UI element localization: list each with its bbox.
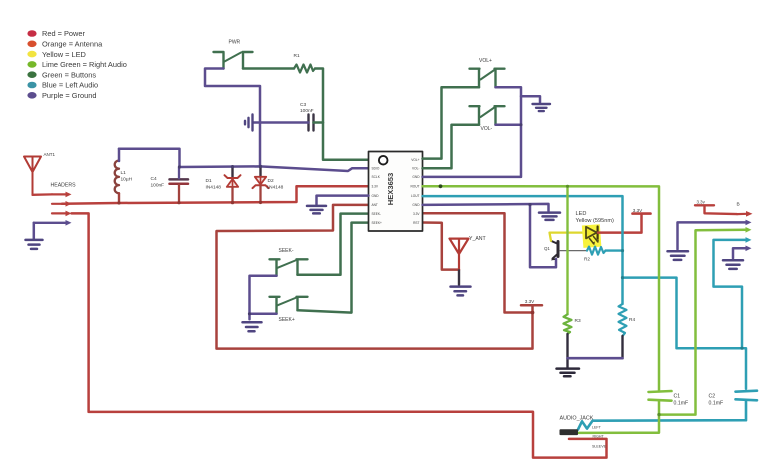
svg-text:R1: R1	[294, 53, 300, 59]
wire R3 bottom stem (dark)	[566, 334, 568, 367]
ground below R3 (dark)	[557, 369, 580, 377]
svg-text:0.1mF: 0.1mF	[674, 401, 689, 407]
IC U1 HEX3653	[369, 152, 423, 232]
antenna Y_ANT	[450, 236, 487, 285]
wire IC right pin4 right-audio to C1 (lime)	[423, 186, 660, 391]
power symbol 3.3v at right header	[695, 200, 737, 215]
svg-text:PWR: PWR	[229, 40, 241, 46]
svg-text:0.1mF: 0.1mF	[709, 401, 724, 407]
svg-text:ANT1: ANT1	[44, 152, 56, 157]
wire R1 to IC pin1 (green)	[315, 69, 369, 160]
wire R2 to left-audio line (teal)	[606, 249, 623, 251]
wire teal branch to C2	[623, 278, 747, 389]
svg-text:VOL+: VOL+	[411, 158, 419, 162]
wire right header pin4 (teal)	[714, 240, 748, 348]
svg-text:3.3V: 3.3V	[372, 184, 379, 188]
wire VOL+ to IC right pin1 (green)	[423, 87, 480, 158]
svg-text:GND: GND	[412, 175, 420, 179]
svg-text:SEEK-: SEEK-	[372, 212, 382, 216]
svg-text:AUDIO_JACK: AUDIO_JACK	[560, 415, 594, 421]
wire power bus headers to IC pin4 (red)	[62, 186, 369, 204]
right header pin3 arrow (lime)	[746, 227, 752, 233]
diode D2 1N4148	[253, 166, 284, 202]
svg-text:C3: C3	[300, 102, 306, 108]
svg-text:R3: R3	[575, 318, 581, 324]
junction node dots	[117, 123, 743, 416]
header pin2 arrow (red)	[52, 201, 72, 207]
svg-text:D1: D1	[206, 178, 212, 184]
svg-text:VOL-: VOL-	[412, 167, 419, 171]
connector AUDIO_JACK	[560, 415, 607, 448]
legend swatch Purple=Ground	[27, 91, 96, 100]
wire IC left pin5 to ground (purple)	[317, 196, 369, 205]
wire SEEK+ to IC pin8 (green)	[298, 223, 369, 313]
ground at right header pin2	[668, 251, 689, 260]
pushbutton SEEK-	[270, 259, 308, 276]
legend swatch Red=Power	[27, 29, 85, 38]
wire C3 right plate to green node	[314, 121, 324, 124]
header pin3 arrow (red)	[52, 211, 72, 217]
svg-text:3.3V: 3.3V	[633, 208, 643, 213]
wire SEEK- to IC pin7 (green)	[298, 214, 369, 275]
connector HEADERS label	[51, 182, 77, 188]
svg-text:C1: C1	[674, 393, 681, 399]
svg-text:C4: C4	[151, 176, 157, 182]
transistor Q1	[544, 241, 558, 261]
wire IC pin7 to 3.3V node (red)	[423, 213, 533, 312]
svg-text:1N4148: 1N4148	[267, 185, 284, 191]
resistor R2	[584, 247, 606, 262]
wire VOL common to IC right pin3 (purple)	[423, 87, 541, 177]
wire C2 to jack LEFT (teal)	[578, 401, 746, 430]
wire right header pin2 to ground (purple)	[678, 222, 749, 249]
svg-text:SDIO: SDIO	[372, 167, 380, 171]
svg-text:VOL+: VOL+	[479, 58, 492, 64]
resistor R4	[619, 304, 636, 336]
svg-text:D2: D2	[268, 178, 274, 184]
svg-text:3.3V: 3.3V	[413, 212, 420, 216]
svg-text:HEX3653: HEX3653	[386, 173, 395, 206]
svg-text:LED: LED	[576, 211, 587, 217]
svg-text:Yellow (595nm): Yellow (595nm)	[576, 218, 614, 224]
svg-text:VOL-: VOL-	[481, 126, 493, 132]
legend swatch Green=Buttons	[27, 70, 96, 79]
resistor R1	[294, 53, 316, 73]
wire header pin3 to bottom rail (red)	[72, 213, 607, 457]
ground at Y_ANT	[451, 287, 471, 296]
svg-text:Blue = Left Audio: Blue = Left Audio	[42, 81, 98, 90]
resistor R3	[564, 314, 581, 334]
svg-text:Yellow = LED: Yellow = LED	[42, 50, 86, 59]
svg-text:100nF: 100nF	[300, 108, 314, 114]
ground at IC right pin6	[539, 213, 560, 220]
svg-text:GND: GND	[412, 203, 420, 207]
wire C3 left plate to side ground (purple)	[254, 121, 309, 124]
svg-text:10µH: 10µH	[121, 177, 133, 183]
wire L1 bottom stub to power bus (red)	[118, 193, 120, 203]
wire C1 bottom junction to jack RIGHT (lime)	[578, 401, 659, 433]
svg-text:SCLK: SCLK	[372, 175, 381, 179]
svg-text:B: B	[737, 202, 740, 208]
IC pin labels right	[410, 158, 420, 225]
wire C1 junction to right header pin3 (lime)	[659, 230, 747, 415]
svg-text:SEEK+: SEEK+	[372, 221, 383, 225]
ground at VOL buttons	[533, 104, 551, 111]
svg-text:Green = Buttons: Green = Buttons	[42, 70, 96, 79]
svg-text:Purple = Ground: Purple = Ground	[42, 91, 96, 100]
wire Q1 base lead (gray)	[560, 250, 588, 252]
svg-text:SLEEVE: SLEEVE	[592, 444, 607, 448]
header pin4 arrow (purple)	[34, 220, 72, 226]
power symbol 3.3V at LED	[633, 208, 651, 214]
svg-text:IN4148: IN4148	[206, 185, 222, 191]
pushbutton PWR	[214, 52, 253, 69]
svg-text:HEADERS: HEADERS	[51, 182, 77, 188]
svg-text:GND: GND	[372, 194, 380, 198]
wire R4 bottom stem (dark)	[621, 336, 623, 358]
svg-text:Y_ANT: Y_ANT	[469, 236, 487, 242]
wire ground bus horizontal to IC pin2 (purple)	[180, 166, 369, 171]
ground at right header pin5	[723, 260, 743, 269]
svg-text:ANT: ANT	[372, 203, 378, 207]
IC pin labels left	[372, 167, 383, 225]
wire VOL- to IC right pin2 (green)	[423, 125, 480, 169]
wire L1 top stub (purple)	[118, 149, 121, 161]
right header label B	[737, 202, 740, 208]
svg-text:ROUT: ROUT	[410, 184, 419, 188]
capacitor C4	[151, 176, 189, 189]
wire IC right pin6 ground net (purple)	[423, 204, 557, 267]
header pin1 arrow (red)	[52, 192, 72, 198]
svg-text:Red = Power: Red = Power	[42, 29, 85, 38]
wire IC right pin8 to Y_ANT (red)	[423, 223, 460, 270]
wire Q1 collector to LED anode (yellow)	[550, 233, 586, 241]
right header pin5 arrow (purple)	[746, 246, 752, 252]
pushbutton VOL-	[470, 106, 505, 125]
right header pin2 arrow (purple)	[746, 220, 752, 226]
legend swatch Blue=LeftAudio	[27, 81, 98, 90]
ground at headers	[26, 240, 43, 249]
CIRCUIT_START	[24, 40, 607, 458]
power symbol 3.3V at red box	[521, 299, 542, 313]
svg-text:SEEK+: SEEK+	[279, 317, 295, 323]
wire ground bus top run L1 to C4 corner (purple)	[119, 149, 180, 167]
svg-text:100nF: 100nF	[151, 183, 165, 189]
right header pin1 arrow (red)	[737, 211, 753, 217]
svg-text:R2: R2	[584, 256, 590, 261]
wire header pin4 to ground (purple)	[33, 223, 36, 239]
capacitor C3	[300, 102, 314, 131]
svg-text:Orange = Antenna: Orange = Antenna	[42, 40, 103, 49]
wire PWR right pin to R1 (green)	[243, 67, 294, 70]
legend swatch LimeGreen=RightAudio	[27, 60, 126, 69]
svg-text:3.3v: 3.3v	[697, 200, 706, 205]
antenna ANT1	[24, 152, 56, 195]
svg-text:L1: L1	[121, 170, 127, 176]
inductor L1	[115, 161, 133, 194]
svg-text:C2: C2	[709, 393, 716, 399]
diode D1 1N4148	[206, 167, 241, 203]
pushbutton VOL+	[470, 69, 505, 88]
wire LED cathode to 3.3V (red)	[598, 214, 642, 232]
ground at IC left pin5	[307, 206, 326, 214]
svg-text:LEFT: LEFT	[592, 426, 602, 430]
LED D3 Yellow 595nm	[576, 211, 614, 248]
wire IC pin6 to Y_ANT and red box	[217, 205, 533, 349]
capacitor C1	[649, 391, 689, 407]
wire C4 bottom stub (red)	[178, 185, 180, 203]
right header pin4 arrow (teal)	[746, 237, 752, 243]
svg-text:R4: R4	[629, 317, 635, 323]
wire PWR left pin to ground bus (purple)	[205, 69, 260, 168]
wire C4 top stub (purple)	[178, 167, 180, 179]
svg-text:Lime Green = Right Audio: Lime Green = Right Audio	[42, 60, 127, 69]
capacitor C2	[709, 391, 758, 407]
legend swatch Yellow=LED	[27, 50, 86, 59]
svg-text:Q1: Q1	[544, 246, 550, 251]
svg-text:RIGHT: RIGHT	[593, 435, 605, 439]
wire right header pin5 to ground (purple)	[733, 248, 748, 258]
svg-text:LOUT: LOUT	[411, 194, 420, 198]
svg-text:SEEK-: SEEK-	[279, 248, 294, 254]
pushbutton SEEK+	[270, 297, 308, 314]
wire SEEK left pins to ground (purple)	[250, 276, 277, 320]
svg-text:3.3V: 3.3V	[525, 299, 535, 304]
wire ANT1 to header pin1 (red)	[33, 193, 53, 196]
svg-text:RST: RST	[413, 221, 419, 225]
ground sideways at C3	[245, 115, 253, 131]
wire IC right pin5 left-audio to R4 (teal)	[423, 196, 623, 304]
ground at SEEK buttons	[243, 322, 262, 331]
wire lime branch to R3	[566, 186, 568, 314]
legend swatch Orange=Antenna	[27, 40, 103, 49]
wire R3-R4 bottom link (purple)	[568, 357, 623, 360]
